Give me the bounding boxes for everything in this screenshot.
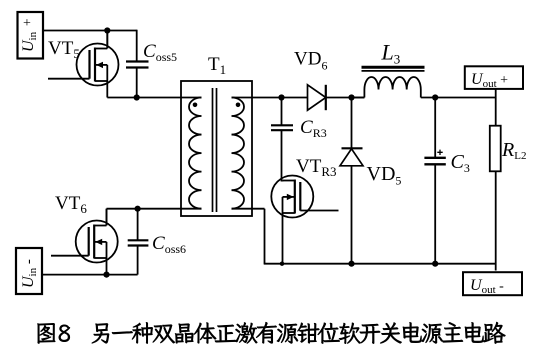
resistor R_L2 — [490, 126, 501, 172]
wire primary bottom to VT6 drain — [107, 208, 202, 210]
capacitor C_R3 — [271, 125, 293, 130]
wire R_L2 to U_out- — [495, 171, 497, 270]
capacitor C_oss6 — [128, 240, 149, 245]
svg-text:C3: C3 — [451, 151, 470, 175]
wire VT5 source to transformer primary top — [107, 97, 181, 99]
svg-text:CR3: CR3 — [300, 117, 327, 140]
wire C3 top lead — [434, 98, 436, 158]
node C3 on rail — [432, 261, 438, 267]
wire C_R3 to VT_R3 drain — [281, 130, 283, 181]
transformer core — [213, 88, 217, 212]
svg-text:Uin -: Uin - — [20, 259, 39, 288]
wire bottom rail — [264, 263, 496, 265]
svg-text:Uout +: Uout + — [471, 71, 508, 90]
wire VD6 cathode to node — [326, 97, 365, 99]
svg-text:RL2: RL2 — [501, 139, 526, 162]
svg-text:Uin: Uin — [20, 31, 39, 52]
wire C3 bottom lead — [434, 164, 436, 263]
primary phase dot — [193, 103, 198, 108]
wire secondary return vertical — [264, 209, 266, 264]
capacitor C3 — [424, 150, 445, 165]
wire C_oss6 top lead — [137, 209, 139, 241]
secondary phase dot — [236, 103, 241, 108]
svg-text:Coss5: Coss5 — [143, 41, 177, 64]
node VT_R3 source on rail — [280, 262, 284, 266]
node C_oss5/source junction — [134, 94, 140, 100]
terminal U_out- box — [463, 272, 522, 296]
node VD5/L3 junction — [348, 94, 354, 100]
svg-text:T1: T1 — [208, 54, 226, 77]
wire C_R3 top lead — [281, 98, 283, 126]
wire VT6 gate lead — [51, 255, 89, 257]
wire L3 to output node — [421, 97, 496, 99]
svg-text:+: + — [23, 16, 31, 31]
svg-text:L3: L3 — [381, 40, 401, 67]
transistor VT_R3 — [271, 176, 313, 264]
node C_R3 junction — [278, 94, 284, 100]
wire from U_in+ to VT5 drain node — [43, 30, 137, 32]
wire C_oss6 bottom lead — [137, 246, 139, 275]
transformer secondary winding — [232, 98, 245, 209]
capacitor C_oss5 — [126, 62, 149, 68]
transistor VT5 — [77, 31, 119, 98]
diode VD6 — [308, 85, 326, 110]
svg-text:Coss6: Coss6 — [152, 233, 186, 256]
wire C_oss5 bottom lead — [136, 68, 138, 98]
wire VT5 drain lead — [106, 31, 108, 49]
wire VD5 cathode lead — [351, 98, 353, 149]
transformer T1 box — [181, 81, 252, 216]
terminal U_out+ box — [465, 66, 523, 90]
svg-text:Uout -: Uout - — [470, 277, 504, 296]
node VT6 source junction — [103, 272, 109, 278]
node VT5 drain junction — [104, 27, 110, 33]
source terminal U_in+ — [18, 12, 44, 59]
wire secondary bottom exit — [232, 208, 265, 210]
wire VT5 gate lead — [48, 78, 90, 80]
node VD5 anode on rail — [348, 261, 354, 267]
transformer primary winding — [189, 98, 202, 209]
diode VD5 — [340, 148, 363, 166]
svg-text:VTR3: VTR3 — [296, 156, 337, 179]
wire VD5 anode to rail — [351, 166, 353, 264]
source terminal U_in- — [16, 248, 42, 294]
svg-text:VT5: VT5 — [48, 38, 80, 61]
inductor L3 — [362, 67, 425, 97]
node C_oss6 top junction — [135, 206, 141, 212]
svg-text:VD5: VD5 — [367, 163, 402, 188]
wire primary entry — [181, 97, 202, 99]
wire VT6 drain lead — [106, 209, 108, 226]
wire U_in- to C_oss6 — [42, 274, 138, 276]
wire node to L3 — [352, 97, 365, 99]
svg-text:VD6: VD6 — [294, 49, 327, 73]
caption 图8 另一种双晶体正激有源钳位软开关电源主电路 — [37, 322, 505, 344]
wire C_oss5 top lead — [136, 30, 138, 62]
wire secondary entry — [232, 97, 253, 99]
node C3 junction — [432, 94, 438, 100]
transistor VT6 — [76, 209, 118, 275]
wire U_out+ lead — [495, 89, 497, 126]
svg-text:VT6: VT6 — [55, 193, 87, 216]
wire secondary top to VD6 — [252, 97, 308, 99]
wire VT_R3 gate lead — [300, 210, 338, 212]
